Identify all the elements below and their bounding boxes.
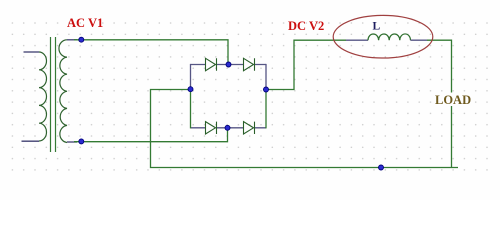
annotation ellipse around L xyxy=(333,15,433,58)
diode D1 top-left xyxy=(206,58,217,70)
wire inductor to load xyxy=(427,40,452,167)
bridge top edge leads xyxy=(191,64,267,66)
node bottom rail xyxy=(379,165,384,170)
label LOAD (opaque background over load wire) xyxy=(434,93,472,107)
bridge right edge upper lead xyxy=(265,64,267,90)
transformer T1 primary bottom lead xyxy=(22,140,40,142)
wire DC plus: bridge right node up to inductor rail xyxy=(266,40,346,89)
node bridge bottom xyxy=(225,125,230,130)
node secondary bottom xyxy=(79,139,84,144)
node secondary top xyxy=(79,37,84,42)
bridge left edge lower wire xyxy=(190,90,192,129)
svg-text:L: L xyxy=(373,21,381,33)
svg-text:LOAD: LOAD xyxy=(435,93,471,107)
svg-text:DC V2: DC V2 xyxy=(288,19,324,33)
bridge left edge upper lead xyxy=(190,64,192,90)
transformer T1 primary top lead xyxy=(24,51,40,53)
transformer T1 secondary bottom lead xyxy=(67,141,77,143)
transformer T1 primary winding xyxy=(39,52,47,141)
node bridge top xyxy=(226,62,231,67)
diode D4 bottom-right xyxy=(244,122,255,134)
diode D2 top-right xyxy=(244,58,255,70)
inductor L winding xyxy=(368,34,411,40)
wire bottom AC: secondary bottom to bridge bottom node xyxy=(74,128,228,142)
bridge right edge lower wire xyxy=(265,90,267,129)
inductor L right lead xyxy=(411,39,428,41)
transformer T1 secondary top lead xyxy=(67,39,77,41)
transformer T1 core xyxy=(51,37,56,152)
diode D3 bottom-left xyxy=(206,122,217,134)
node bridge right xyxy=(264,87,269,92)
inductor L left lead xyxy=(346,39,368,41)
wire top AC: secondary top to bridge top node xyxy=(74,40,228,65)
svg-text:AC V1: AC V1 xyxy=(67,16,103,30)
bridge bottom edge leads xyxy=(191,127,267,129)
node bridge left xyxy=(188,87,193,92)
transformer T1 secondary winding xyxy=(59,40,67,143)
wire DC minus: bridge left node to bottom rail xyxy=(151,90,459,168)
